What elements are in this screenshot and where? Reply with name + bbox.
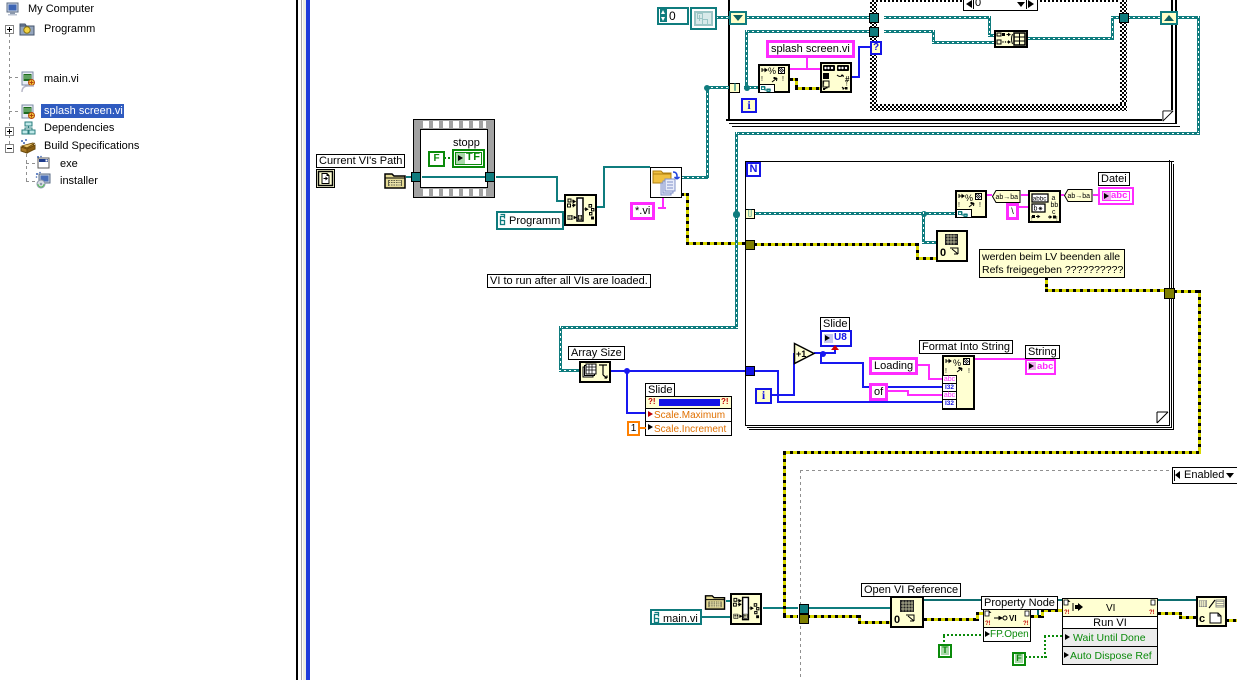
svg-text:bb: bb [1051,202,1059,209]
svg-text:0: 0 [894,614,900,626]
svg-text:ab→ba: ab→ba [996,194,1019,201]
svg-text:!: ! [1056,217,1058,223]
svg-text:abbc: abbc [1033,195,1047,202]
svg-text:⁕: ⁕ [1038,206,1044,213]
svg-text:%: % [768,66,776,76]
svg-text:!: ! [761,76,763,83]
svg-text:%: % [965,193,973,203]
svg-text:!: ! [782,76,784,83]
svg-text:ab→ba: ab→ba [1068,193,1091,200]
svg-text:c: c [1052,209,1056,216]
svg-text:!: ! [958,202,960,209]
svg-text:VI: VI [1106,603,1115,614]
svg-text:a: a [1052,195,1056,202]
svg-text:!: ! [945,368,947,375]
svg-text:c: c [1199,613,1205,625]
svg-text:%: % [953,358,961,368]
svg-text:!: ! [979,202,981,209]
svg-text:VI: VI [1009,614,1017,623]
svg-text:+1: +1 [796,349,806,359]
svg-text:0: 0 [940,247,946,259]
svg-text:!: ! [968,368,970,375]
